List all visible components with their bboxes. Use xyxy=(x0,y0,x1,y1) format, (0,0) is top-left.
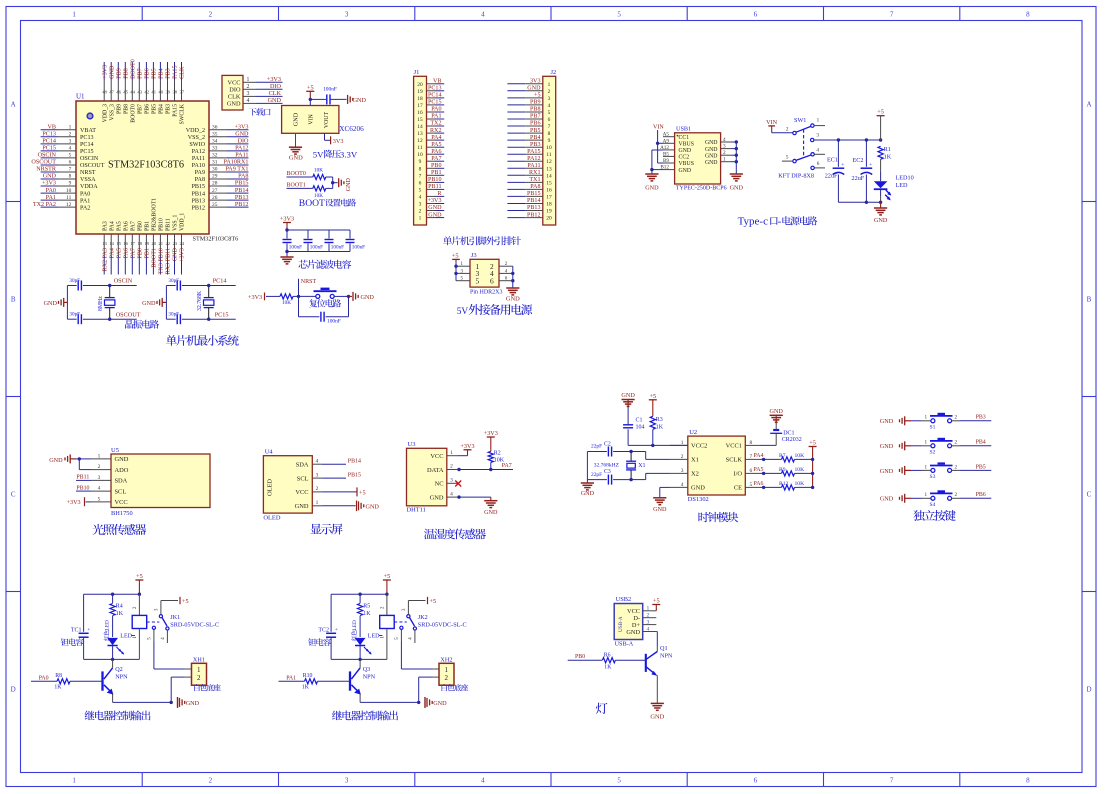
svg-text:PB14: PB14 xyxy=(191,191,205,197)
resistor 10K on BOOT0 xyxy=(287,167,333,179)
svg-text:CLK: CLK xyxy=(269,90,282,97)
svg-text:DIO: DIO xyxy=(229,87,241,94)
svg-text:100nF: 100nF xyxy=(310,245,323,251)
svg-text:+5: +5 xyxy=(307,84,314,91)
resistor R2 10K pullup xyxy=(488,450,505,469)
svg-text:GND: GND xyxy=(44,300,58,307)
svg-text:PA1: PA1 xyxy=(286,676,296,682)
power port +3V3 to U5 VCC xyxy=(67,497,92,506)
svg-text:Q2: Q2 xyxy=(115,666,123,673)
relay JK2 coil xyxy=(380,594,395,659)
svg-text:VIN: VIN xyxy=(766,119,778,126)
power port +5 top of LED branch xyxy=(877,109,885,140)
svg-text:6: 6 xyxy=(750,468,753,474)
ground below crystal rail xyxy=(581,483,595,497)
svg-text:I/O: I/O xyxy=(733,471,742,478)
svg-text:3: 3 xyxy=(548,96,551,102)
svg-text:VCC: VCC xyxy=(228,80,241,87)
svg-text:25: 25 xyxy=(212,202,218,208)
svg-text:15: 15 xyxy=(546,180,552,186)
net label PC15 xyxy=(207,312,236,321)
svg-text:LED: LED xyxy=(105,620,111,631)
svg-text:PB9: PB9 xyxy=(116,68,122,79)
svg-text:1: 1 xyxy=(247,77,250,83)
svg-text:46: 46 xyxy=(116,90,121,95)
svg-text:2: 2 xyxy=(955,415,958,421)
svg-text:8: 8 xyxy=(419,166,422,172)
svg-text:3: 3 xyxy=(419,202,422,208)
svg-text:7: 7 xyxy=(548,124,551,130)
switch SW1 KFT DIP-8X8 xyxy=(778,117,825,180)
svg-text:3: 3 xyxy=(450,478,453,484)
label reset circuit title xyxy=(309,299,341,307)
svg-text:1: 1 xyxy=(925,492,928,498)
net label PB10 to SCL xyxy=(76,485,91,491)
svg-text:4: 4 xyxy=(548,103,551,109)
svg-text:PA2: PA2 xyxy=(80,205,90,211)
relay JK1 contacts xyxy=(147,601,219,644)
op-amp U1 STM32F103C8T6 MCU body xyxy=(76,93,238,243)
svg-text:3: 3 xyxy=(247,91,250,97)
svg-text:4: 4 xyxy=(98,486,101,492)
svg-text:R10: R10 xyxy=(303,673,313,679)
ground at button S1 xyxy=(880,416,922,425)
svg-text:PB10: PB10 xyxy=(428,177,442,183)
svg-text:7: 7 xyxy=(890,777,894,785)
svg-text:PA4: PA4 xyxy=(109,221,115,231)
svg-text:PA5: PA5 xyxy=(431,142,441,148)
svg-text:41: 41 xyxy=(151,90,156,95)
svg-text:26: 26 xyxy=(212,195,218,201)
svg-text:PB9: PB9 xyxy=(530,100,541,106)
svg-text:3V3: 3V3 xyxy=(333,138,344,145)
svg-text:PB8: PB8 xyxy=(123,68,129,79)
svg-text:14: 14 xyxy=(417,124,423,130)
svg-text:PA10RX1: PA10RX1 xyxy=(223,160,248,166)
svg-text:GND: GND xyxy=(115,456,129,463)
svg-text:+3V3: +3V3 xyxy=(42,181,56,187)
svg-text:3: 3 xyxy=(316,472,319,478)
svg-text:3: 3 xyxy=(816,132,819,138)
svg-text:GND: GND xyxy=(650,713,664,720)
svg-text:Q1: Q1 xyxy=(660,645,668,652)
svg-text:13: 13 xyxy=(546,166,552,172)
wire emitter to ground rail xyxy=(113,701,173,704)
svg-text:GND: GND xyxy=(433,700,447,707)
svg-text:OSCOUT: OSCOUT xyxy=(80,163,105,169)
svg-text:GND: GND xyxy=(295,503,309,510)
svg-text:4: 4 xyxy=(247,98,250,104)
power port +3V3 above filter caps xyxy=(280,216,294,231)
svg-text:PA7: PA7 xyxy=(431,156,441,162)
svg-text:22: 22 xyxy=(166,241,171,246)
USB1 right pins 4-1 xyxy=(721,137,738,174)
svg-text:PB10: PB10 xyxy=(159,218,165,231)
svg-text:100nF: 100nF xyxy=(331,245,344,251)
svg-text:PB0: PB0 xyxy=(137,221,143,231)
power port 3V3 at VOUT xyxy=(325,133,344,145)
svg-text:J2: J2 xyxy=(551,69,557,76)
transistor Q2 NPN xyxy=(103,659,129,702)
svg-text:4: 4 xyxy=(481,777,485,785)
svg-text:PB15: PB15 xyxy=(527,191,541,197)
svg-text:9: 9 xyxy=(548,138,551,144)
svg-text:42: 42 xyxy=(144,90,149,95)
svg-text:U2: U2 xyxy=(689,429,697,436)
svg-text:10K: 10K xyxy=(314,167,323,173)
svg-text:OLED: OLED xyxy=(263,514,280,521)
wire XH1 pin2 to ground xyxy=(171,677,191,702)
wire U2 GND pin to ground xyxy=(660,487,670,497)
svg-text:NRST: NRST xyxy=(80,170,96,176)
svg-text:KFT DIP-8X8: KFT DIP-8X8 xyxy=(778,173,814,180)
svg-text:RX2: RX2 xyxy=(430,128,442,134)
svg-text:X1: X1 xyxy=(638,463,645,469)
capacitor 100nF at regulator input xyxy=(323,87,346,105)
svg-text:EC2: EC2 xyxy=(853,157,864,164)
svg-text:PB3: PB3 xyxy=(166,104,172,114)
svg-text:2: 2 xyxy=(247,84,250,90)
wire relay contact to XH1 pin1 xyxy=(154,642,192,670)
svg-text:R2: R2 xyxy=(494,450,501,456)
regulator U XC6206 body xyxy=(282,106,364,134)
svg-text:PA1: PA1 xyxy=(80,198,90,204)
svg-text:100nF: 100nF xyxy=(323,87,337,93)
svg-text:VDD_1: VDD_1 xyxy=(180,213,186,231)
svg-text:BOOT0: BOOT0 xyxy=(287,171,306,177)
svg-text:D: D xyxy=(1086,686,1091,694)
svg-text:6: 6 xyxy=(490,276,494,285)
label clock module title xyxy=(698,512,738,522)
svg-text:R1: R1 xyxy=(884,146,891,153)
svg-text:4: 4 xyxy=(723,137,726,143)
label light sensor title xyxy=(93,524,147,535)
svg-text:2: 2 xyxy=(209,777,213,785)
svg-text:+5: +5 xyxy=(653,598,660,605)
svg-text:SW1: SW1 xyxy=(794,117,806,124)
push button S2 xyxy=(922,439,961,456)
svg-text:+5: +5 xyxy=(359,489,366,496)
label buttons title xyxy=(913,510,955,521)
svg-text:24: 24 xyxy=(180,241,185,246)
svg-text:+5: +5 xyxy=(430,598,437,605)
svg-text:30pF: 30pF xyxy=(168,278,179,284)
connector J3 2x3 header body xyxy=(470,252,499,287)
svg-text:32.768kHZ: 32.768kHZ xyxy=(594,463,620,469)
svg-text:1: 1 xyxy=(647,606,650,612)
svg-text:PB6: PB6 xyxy=(530,121,541,127)
svg-text:VDD_3: VDD_3 xyxy=(102,104,108,122)
svg-text:B: B xyxy=(1087,296,1092,304)
svg-text:STM32F103C8T6: STM32F103C8T6 xyxy=(193,236,239,243)
svg-text:GND: GND xyxy=(705,160,718,166)
svg-text:7: 7 xyxy=(419,173,422,179)
svg-text:RX1: RX1 xyxy=(529,170,541,176)
svg-text:DIO: DIO xyxy=(270,83,282,90)
svg-text:3: 3 xyxy=(723,144,726,150)
svg-text:8: 8 xyxy=(1026,777,1030,785)
svg-text:SRD-05VDC-SL-C: SRD-05VDC-SL-C xyxy=(170,621,219,628)
svg-text:U3: U3 xyxy=(408,441,416,448)
svg-text:2: 2 xyxy=(316,486,319,492)
resistor R7 10K on PA4 xyxy=(754,453,815,462)
svg-text:NPN: NPN xyxy=(115,674,128,681)
svg-text:16: 16 xyxy=(546,187,552,193)
svg-text:NRSTR: NRSTR xyxy=(36,167,57,173)
svg-text:VIN: VIN xyxy=(308,114,314,125)
svg-text:PB15: PB15 xyxy=(348,473,361,479)
svg-text:1: 1 xyxy=(419,216,422,222)
wire USB2 GND to Q1 collector xyxy=(656,632,657,647)
svg-text:12: 12 xyxy=(66,202,72,208)
wire relay contact to XH2 pin1 xyxy=(401,642,439,670)
svg-text:GND: GND xyxy=(769,408,783,415)
svg-text:PB1: PB1 xyxy=(145,248,151,259)
connector USB2 USB-A body xyxy=(614,596,643,640)
label red LED vertical xyxy=(104,620,111,641)
svg-text:10K: 10K xyxy=(795,481,805,487)
svg-text:DS1302: DS1302 xyxy=(688,496,709,503)
svg-text:PB8: PB8 xyxy=(123,104,129,114)
svg-text:PB15: PB15 xyxy=(235,181,249,187)
svg-text:GND: GND xyxy=(235,132,249,138)
ground below USB1 left xyxy=(645,174,659,192)
svg-text:PA4: PA4 xyxy=(109,248,115,258)
svg-text:LED: LED xyxy=(896,182,909,189)
svg-text:LED: LED xyxy=(352,620,358,631)
svg-text:16: 16 xyxy=(417,110,423,116)
svg-text:6: 6 xyxy=(754,777,758,785)
svg-text:JK2: JK2 xyxy=(418,614,428,621)
svg-text:DIO: DIO xyxy=(238,139,249,145)
svg-text:PB3: PB3 xyxy=(166,68,172,79)
ground below filter caps xyxy=(280,252,293,264)
svg-text:+3V3: +3V3 xyxy=(460,443,474,450)
resistor R12 10K on PA6 xyxy=(754,481,815,490)
svg-text:1K: 1K xyxy=(884,154,892,161)
svg-text:PA12: PA12 xyxy=(527,156,540,162)
svg-text:1: 1 xyxy=(548,82,551,88)
svg-text:6: 6 xyxy=(548,117,551,123)
svg-text:11: 11 xyxy=(66,195,71,201)
svg-text:PA0: PA0 xyxy=(80,191,90,197)
svg-text:TX2 PA2: TX2 PA2 xyxy=(33,202,56,208)
svg-text:GND: GND xyxy=(289,155,303,162)
capacitor C2 22pF xyxy=(587,441,631,456)
U3 pins 1-4 xyxy=(447,450,458,497)
svg-text:VBUS: VBUS xyxy=(679,161,694,167)
svg-text:PB4: PB4 xyxy=(159,68,165,79)
svg-text:PA9 TX1: PA9 TX1 xyxy=(225,167,248,173)
connector XH2 socket body xyxy=(439,657,454,686)
power port +3V3 at reset xyxy=(248,293,280,301)
svg-text:-: - xyxy=(778,216,782,228)
svg-text:34: 34 xyxy=(212,139,218,145)
display U4 OLED body xyxy=(263,449,312,514)
svg-text:15: 15 xyxy=(116,241,121,246)
wire XH2 pin2 to ground xyxy=(419,677,439,702)
label white socket xyxy=(442,684,469,691)
svg-text:1: 1 xyxy=(316,500,319,506)
svg-text:GND: GND xyxy=(645,185,659,192)
svg-text:C1: C1 xyxy=(636,417,643,423)
svg-text:8: 8 xyxy=(548,131,551,137)
svg-text:3: 3 xyxy=(345,11,349,19)
ground at BOOT divider xyxy=(339,178,352,192)
svg-text:VCC: VCC xyxy=(295,489,308,496)
svg-text:PB0: PB0 xyxy=(575,654,585,660)
svg-text:B5: B5 xyxy=(663,151,669,157)
svg-text:47: 47 xyxy=(109,90,114,95)
svg-text:Q3: Q3 xyxy=(363,666,371,673)
svg-text:+5: +5 xyxy=(182,598,189,605)
svg-text:GND: GND xyxy=(621,392,635,399)
svg-text:A5: A5 xyxy=(663,132,670,138)
label Type-C power title xyxy=(738,216,818,228)
svg-text:OLED: OLED xyxy=(267,479,274,496)
crystal 32.768K xyxy=(197,286,214,320)
svg-text:PB3: PB3 xyxy=(530,142,541,148)
power port +5 relay JK1 xyxy=(135,573,143,594)
svg-text:40: 40 xyxy=(158,90,163,95)
svg-text:PB5: PB5 xyxy=(152,104,158,114)
svg-text:GND: GND xyxy=(880,443,894,450)
net label PB11 to SDA xyxy=(76,475,91,481)
battery DC1 CR2032 xyxy=(760,424,802,446)
connector J1 pin header body xyxy=(414,69,427,225)
svg-text:CR2032: CR2032 xyxy=(782,437,802,443)
svg-text:PB9: PB9 xyxy=(116,104,122,114)
LED10 diode xyxy=(874,175,914,203)
capacitor 30pF top xyxy=(67,278,109,291)
svg-text:SCL: SCL xyxy=(297,475,309,482)
svg-text:S4: S4 xyxy=(930,502,936,508)
wire joining BOOT resistors xyxy=(331,177,338,188)
label white socket xyxy=(194,684,221,691)
svg-text:X2: X2 xyxy=(691,471,699,478)
svg-text:PC15: PC15 xyxy=(42,146,56,152)
svg-text:USB2: USB2 xyxy=(616,596,632,603)
svg-text:JK1: JK1 xyxy=(170,614,180,621)
svg-text:PA11: PA11 xyxy=(192,156,205,162)
power port VIN at switch xyxy=(766,119,793,133)
transistor Q3 NPN xyxy=(350,659,376,702)
wire VIN pin to +5 xyxy=(309,99,311,105)
ground right of reset button xyxy=(349,292,375,301)
svg-text:15: 15 xyxy=(417,117,423,123)
ground below U3 xyxy=(484,497,498,516)
ground below Q1 emitter xyxy=(650,703,664,720)
wire crystal left rail xyxy=(66,286,68,320)
svg-text:J1: J1 xyxy=(414,69,420,76)
svg-text:PC14: PC14 xyxy=(428,93,442,99)
svg-text:VIN: VIN xyxy=(653,125,664,131)
svg-text:PA7: PA7 xyxy=(502,463,512,469)
wire relay bottom rail xyxy=(331,658,387,661)
ground above DC1 xyxy=(769,408,783,424)
svg-text:PB8: PB8 xyxy=(530,107,541,113)
svg-text:12: 12 xyxy=(417,138,423,144)
resistor R9 10K on PA5 xyxy=(754,467,815,476)
svg-text:BOOT0: BOOT0 xyxy=(131,59,137,79)
svg-text:LED: LED xyxy=(120,633,132,639)
svg-text:22pF: 22pF xyxy=(591,444,602,450)
label crystal circuit title xyxy=(125,320,159,329)
svg-text:PB0: PB0 xyxy=(431,163,442,169)
svg-text:PB13: PB13 xyxy=(235,195,249,201)
U4 pins 4-1 xyxy=(312,458,322,506)
svg-text:GND: GND xyxy=(353,97,367,104)
resistor R5 1K xyxy=(358,594,372,637)
svg-text:22pF: 22pF xyxy=(591,472,602,478)
svg-text:TYPEC-250D-BCP6: TYPEC-250D-BCP6 xyxy=(676,186,727,192)
svg-text:GND: GND xyxy=(346,178,352,192)
ground below USB1 right xyxy=(730,174,744,192)
svg-text:5: 5 xyxy=(548,110,551,116)
svg-text:32.768K: 32.768K xyxy=(197,290,203,311)
svg-text:PB12: PB12 xyxy=(527,212,541,218)
svg-text:PA4: PA4 xyxy=(754,453,764,459)
power port +5 at relay common xyxy=(180,597,189,605)
svg-text:18: 18 xyxy=(546,202,552,208)
svg-text:PA0: PA0 xyxy=(431,107,441,113)
svg-text:2: 2 xyxy=(98,464,101,470)
svg-text:DHT11: DHT11 xyxy=(407,507,426,514)
svg-text:A9: A9 xyxy=(663,138,670,144)
svg-text:PB5: PB5 xyxy=(530,128,541,134)
svg-text:+3V3: +3V3 xyxy=(102,65,108,79)
svg-text:43: 43 xyxy=(137,90,142,95)
svg-text:GND: GND xyxy=(506,296,520,303)
svg-text:PB11: PB11 xyxy=(428,184,441,190)
svg-text:+3V3: +3V3 xyxy=(180,248,186,262)
svg-text:PB6: PB6 xyxy=(144,104,150,114)
svg-text:VSSA: VSSA xyxy=(80,177,96,183)
svg-text:9: 9 xyxy=(419,159,422,165)
svg-text:NRST: NRST xyxy=(301,279,317,285)
svg-text:PC13: PC13 xyxy=(80,135,94,141)
svg-text:18: 18 xyxy=(417,96,423,102)
svg-text:GND: GND xyxy=(49,457,63,464)
ground above C1 xyxy=(621,392,635,407)
svg-text:1: 1 xyxy=(925,415,928,421)
svg-text:+: + xyxy=(841,162,844,168)
svg-text:+5: +5 xyxy=(534,93,540,99)
svg-text:C: C xyxy=(1087,491,1092,499)
power port +5 right rail xyxy=(809,440,817,488)
svg-text:33: 33 xyxy=(212,146,218,152)
connector J2 pin header body xyxy=(543,69,556,225)
resistor R3 1K xyxy=(650,416,664,445)
svg-text:X1: X1 xyxy=(691,457,699,464)
ground at relay emitter rail xyxy=(178,697,200,708)
capacitor 30pF bottom xyxy=(67,312,109,325)
svg-text:28: 28 xyxy=(212,181,218,187)
svg-text:19: 19 xyxy=(546,209,552,215)
svg-text:10K: 10K xyxy=(282,300,291,306)
svg-text:PB7: PB7 xyxy=(137,104,143,114)
svg-text:2: 2 xyxy=(681,454,684,460)
svg-text:6: 6 xyxy=(419,180,422,186)
label tantalum cap xyxy=(308,638,331,646)
no connect X at U3 NC xyxy=(455,481,461,487)
svg-text:2: 2 xyxy=(723,150,726,156)
capacitor TC1 tantalum xyxy=(71,594,91,659)
net label PB14 to SDA xyxy=(322,459,361,465)
svg-text:VB: VB xyxy=(47,125,56,131)
svg-text:USB1: USB1 xyxy=(676,126,691,133)
svg-text:22uF: 22uF xyxy=(852,175,865,182)
